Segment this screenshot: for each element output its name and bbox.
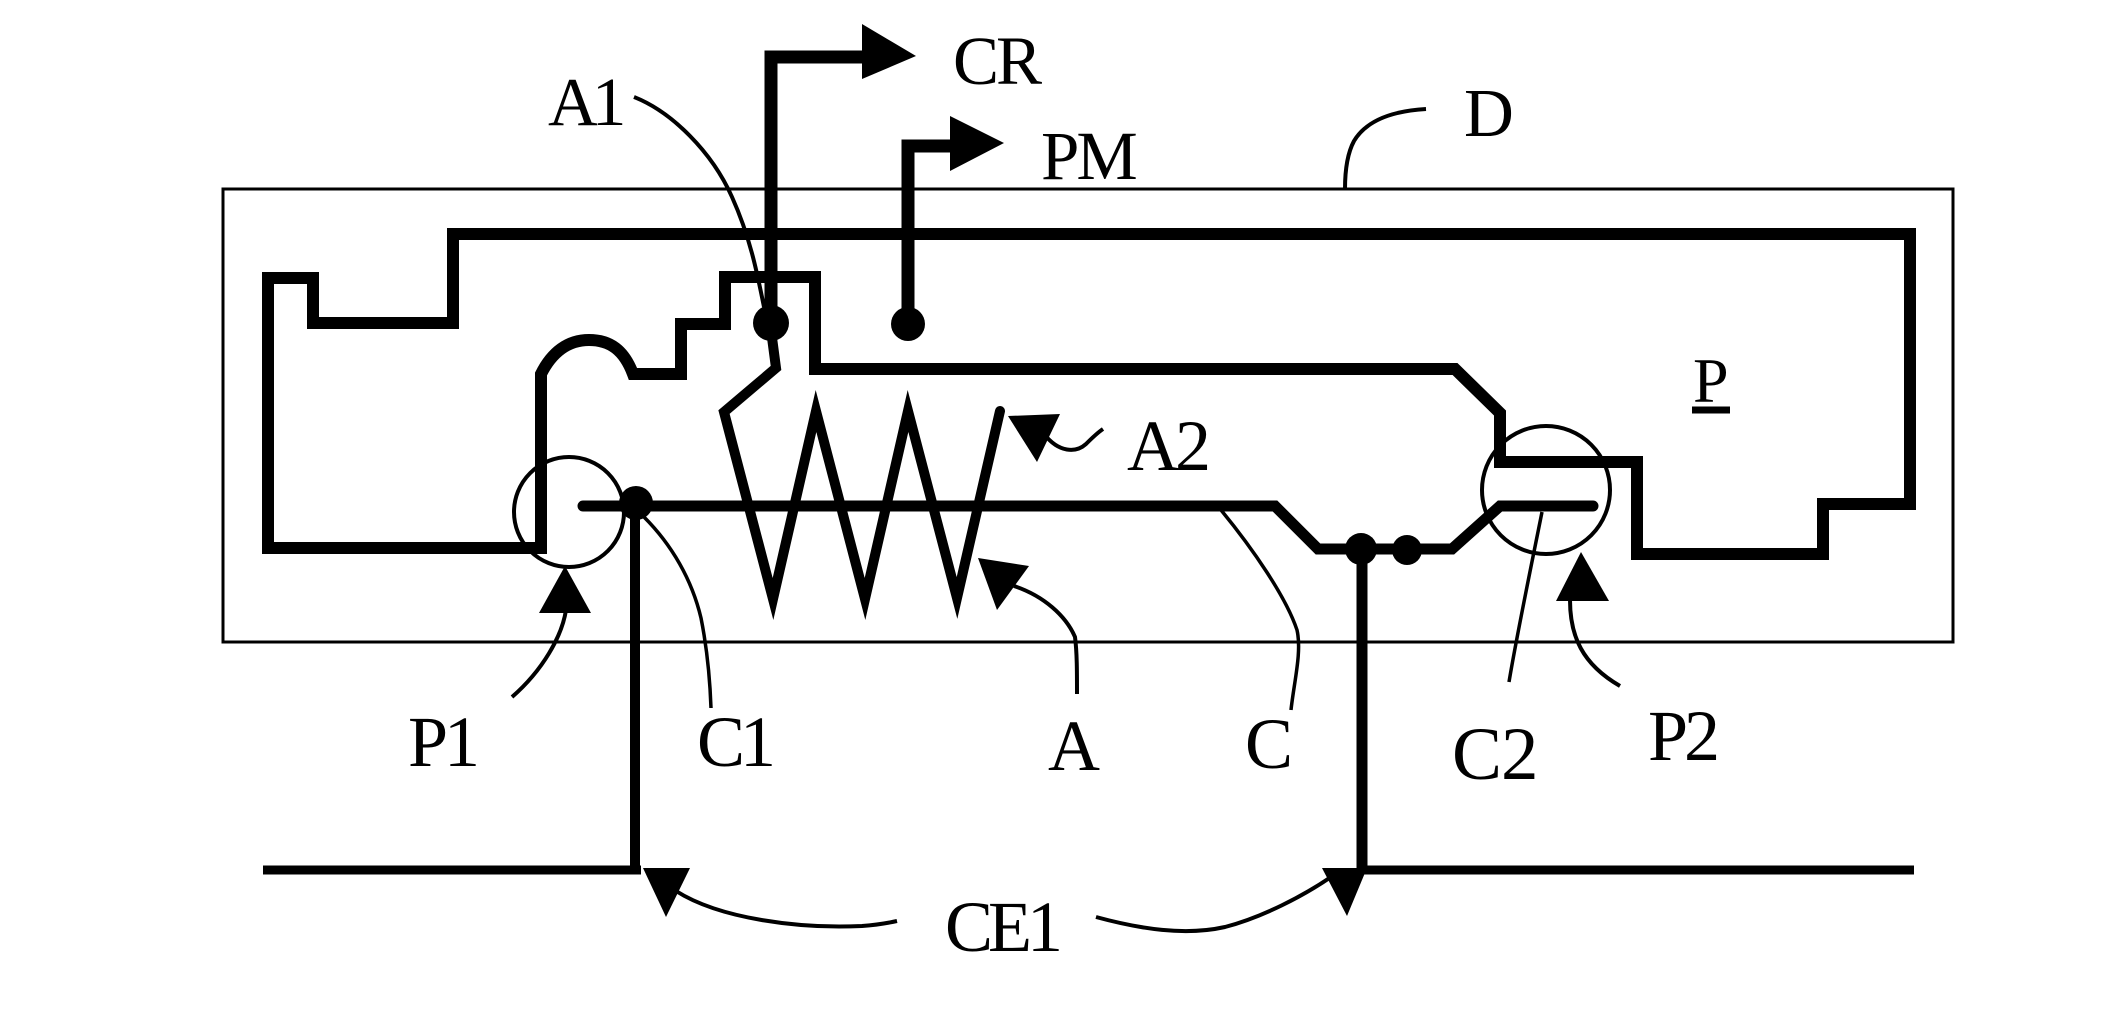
arrow A xyxy=(978,558,1029,610)
svg-text:CE1: CE1 xyxy=(945,887,1059,967)
node C dot right xyxy=(1392,535,1422,565)
svg-text:C1: C1 xyxy=(697,702,772,782)
wire PM xyxy=(908,146,954,330)
common electrode CE1 bus right xyxy=(1362,866,1914,875)
svg-text:D: D xyxy=(1464,75,1514,151)
fixed plate P outline xyxy=(268,234,1910,554)
arrowhead CE1 right xyxy=(1322,868,1367,916)
leader CE1 left xyxy=(676,891,897,927)
arrowhead CR xyxy=(862,24,916,79)
leader CE1 right xyxy=(1096,877,1331,931)
arrowhead PM xyxy=(950,116,1004,171)
arrow P2 xyxy=(1556,552,1609,601)
arrow A2 xyxy=(1008,414,1060,462)
contact circle P1 xyxy=(514,457,624,567)
node C1 dot xyxy=(619,486,653,520)
leader C xyxy=(1221,510,1299,710)
leader A1 xyxy=(634,97,764,307)
svg-text:PM: PM xyxy=(1041,118,1136,194)
svg-text:C2: C2 xyxy=(1452,713,1538,796)
svg-text:A1: A1 xyxy=(548,64,623,140)
svg-text:P: P xyxy=(1693,345,1729,416)
leader C2 xyxy=(1509,512,1542,682)
arrowhead CE1 left xyxy=(643,868,690,917)
svg-text:A2: A2 xyxy=(1127,406,1208,486)
spring element A (zigzag) xyxy=(724,330,1000,599)
node A1 dot xyxy=(753,305,789,341)
enclosure box D xyxy=(223,189,1953,642)
wire CR xyxy=(771,57,868,330)
node PM dot xyxy=(891,307,925,341)
wire C to CE1 xyxy=(1357,552,1368,870)
node C dot left xyxy=(1345,533,1377,565)
contact circle P2 xyxy=(1482,426,1610,554)
arrow P1 xyxy=(539,566,591,613)
leader D xyxy=(1345,109,1426,189)
svg-text:P1: P1 xyxy=(408,702,476,782)
contact blade C xyxy=(583,506,1593,549)
svg-text:CR: CR xyxy=(953,23,1042,99)
svg-text:P2: P2 xyxy=(1648,696,1717,776)
wire C1 to CE1 xyxy=(630,505,640,872)
svg-text:A: A xyxy=(1048,706,1100,786)
common electrode CE1 bus left xyxy=(263,866,641,875)
svg-text:C: C xyxy=(1245,704,1293,784)
leader C1 xyxy=(644,517,711,708)
